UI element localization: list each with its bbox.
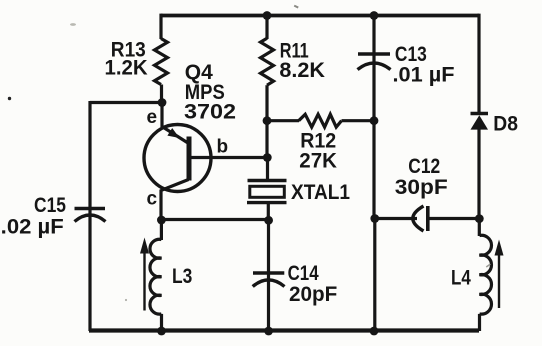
svg-text:3702: 3702: [184, 100, 236, 123]
svg-text:30pF: 30pF: [395, 176, 448, 199]
node top rail C13: [370, 11, 379, 20]
svg-text:8.2K: 8.2K: [279, 59, 325, 82]
node R13/C15/emitter: [158, 98, 167, 107]
svg-text:b: b: [217, 137, 229, 158]
wire R13 bottom lead: [160, 85, 163, 103]
node C12/D8/L4: [475, 214, 484, 223]
wire L4 bottom lead: [478, 314, 481, 331]
transistor Q4 collector diagonal: [161, 180, 189, 191]
transistor Q4 base bar: [187, 137, 192, 181]
svg-text:C14: C14: [288, 262, 319, 285]
wire R11 top lead: [265, 16, 268, 40]
wire C12 node down to bottom rail: [373, 219, 376, 332]
scan speck: [294, 5, 299, 9]
resistor R12 leads: [267, 119, 299, 122]
wire C13 node to C12 node: [372, 121, 375, 219]
crystal XTAL1 body: [250, 186, 284, 197]
wire R13 top lead: [159, 14, 162, 39]
wire right column top (D8 anode lead): [477, 14, 480, 114]
node bottom rail C14: [264, 327, 273, 336]
node R11/R12: [263, 116, 272, 125]
svg-text:20pF: 20pF: [289, 283, 337, 306]
wire bottom rail: [89, 328, 479, 332]
wire collector lead: [159, 190, 162, 222]
wire collector to XTAL node: [161, 218, 268, 221]
svg-text:27K: 27K: [299, 150, 337, 173]
node C13/C12: [370, 214, 379, 223]
inductor L4: [480, 235, 492, 314]
wire XTAL to node: [267, 203, 270, 221]
crystal XTAL1 bottom plate: [247, 201, 287, 204]
node top rail R11: [263, 11, 272, 20]
resistor R11: [261, 38, 274, 85]
crystal XTAL1 top plate: [248, 179, 287, 182]
wire R11 bottom lead: [265, 85, 268, 121]
resistor R12: [299, 114, 342, 127]
arrow L4: [498, 255, 500, 308]
transistor Q4 circle: [144, 125, 211, 192]
svg-text:C12: C12: [408, 155, 440, 178]
wire mid column R12 node to base node: [265, 121, 268, 158]
node XTAL/C14: [264, 216, 273, 225]
inductor L3: [150, 239, 161, 314]
node collector/L3: [157, 216, 166, 225]
svg-text:L3: L3: [172, 265, 192, 288]
capacitor C12 left lead: [375, 217, 417, 220]
wire D8 to C12 node: [477, 129, 480, 219]
transistor Q4 emitter diagonal: [162, 127, 188, 144]
wire base node to XTAL: [266, 158, 269, 182]
wire C15 branch upper vertical: [88, 101, 91, 331]
capacitor C13: [358, 52, 390, 56]
svg-text:C13: C13: [395, 43, 427, 66]
wire C14 top lead: [267, 220, 270, 331]
scan speck: [70, 23, 76, 26]
wire base lead: [189, 156, 267, 159]
resistor R13: [155, 39, 168, 85]
scan speck: [486, 263, 491, 267]
node R12/C13: [370, 116, 379, 125]
diode D8 cathode bar: [471, 112, 489, 115]
node base/XTAL: [263, 153, 272, 162]
wire L3 top lead: [160, 221, 163, 240]
scan speck: [8, 97, 11, 100]
svg-text:D8: D8: [493, 113, 518, 136]
diode D8 triangle: [471, 115, 489, 129]
svg-text:c: c: [147, 189, 158, 210]
capacitor C12 right lead: [428, 217, 479, 220]
transistor Q4 emitter arrow: [167, 128, 179, 138]
svg-text:.01 µF: .01 µF: [393, 64, 455, 87]
wire top rail: [161, 14, 479, 18]
wire L3 bottom lead: [160, 314, 163, 331]
capacitor C12: [413, 206, 424, 231]
scan speck: [125, 299, 127, 301]
svg-text:L4: L4: [451, 267, 471, 290]
wire C13 top lead: [372, 16, 375, 121]
capacitor C15: [75, 207, 106, 211]
node bottom rail L3: [157, 327, 166, 336]
capacitor C14: [253, 271, 284, 275]
svg-text:XTAL1: XTAL1: [291, 181, 350, 204]
svg-text:e: e: [147, 107, 158, 128]
svg-text:C15: C15: [34, 194, 66, 217]
svg-text:1.2K: 1.2K: [105, 56, 148, 79]
wire L4 top lead: [478, 219, 481, 236]
wire emitter lead: [160, 103, 163, 128]
node bottom rail C13 branch: [370, 327, 379, 336]
svg-text:.02 µF: .02 µF: [1, 215, 64, 238]
wire left column top (C15 branch horizontal): [90, 101, 162, 104]
arrow L3: [143, 252, 145, 311]
